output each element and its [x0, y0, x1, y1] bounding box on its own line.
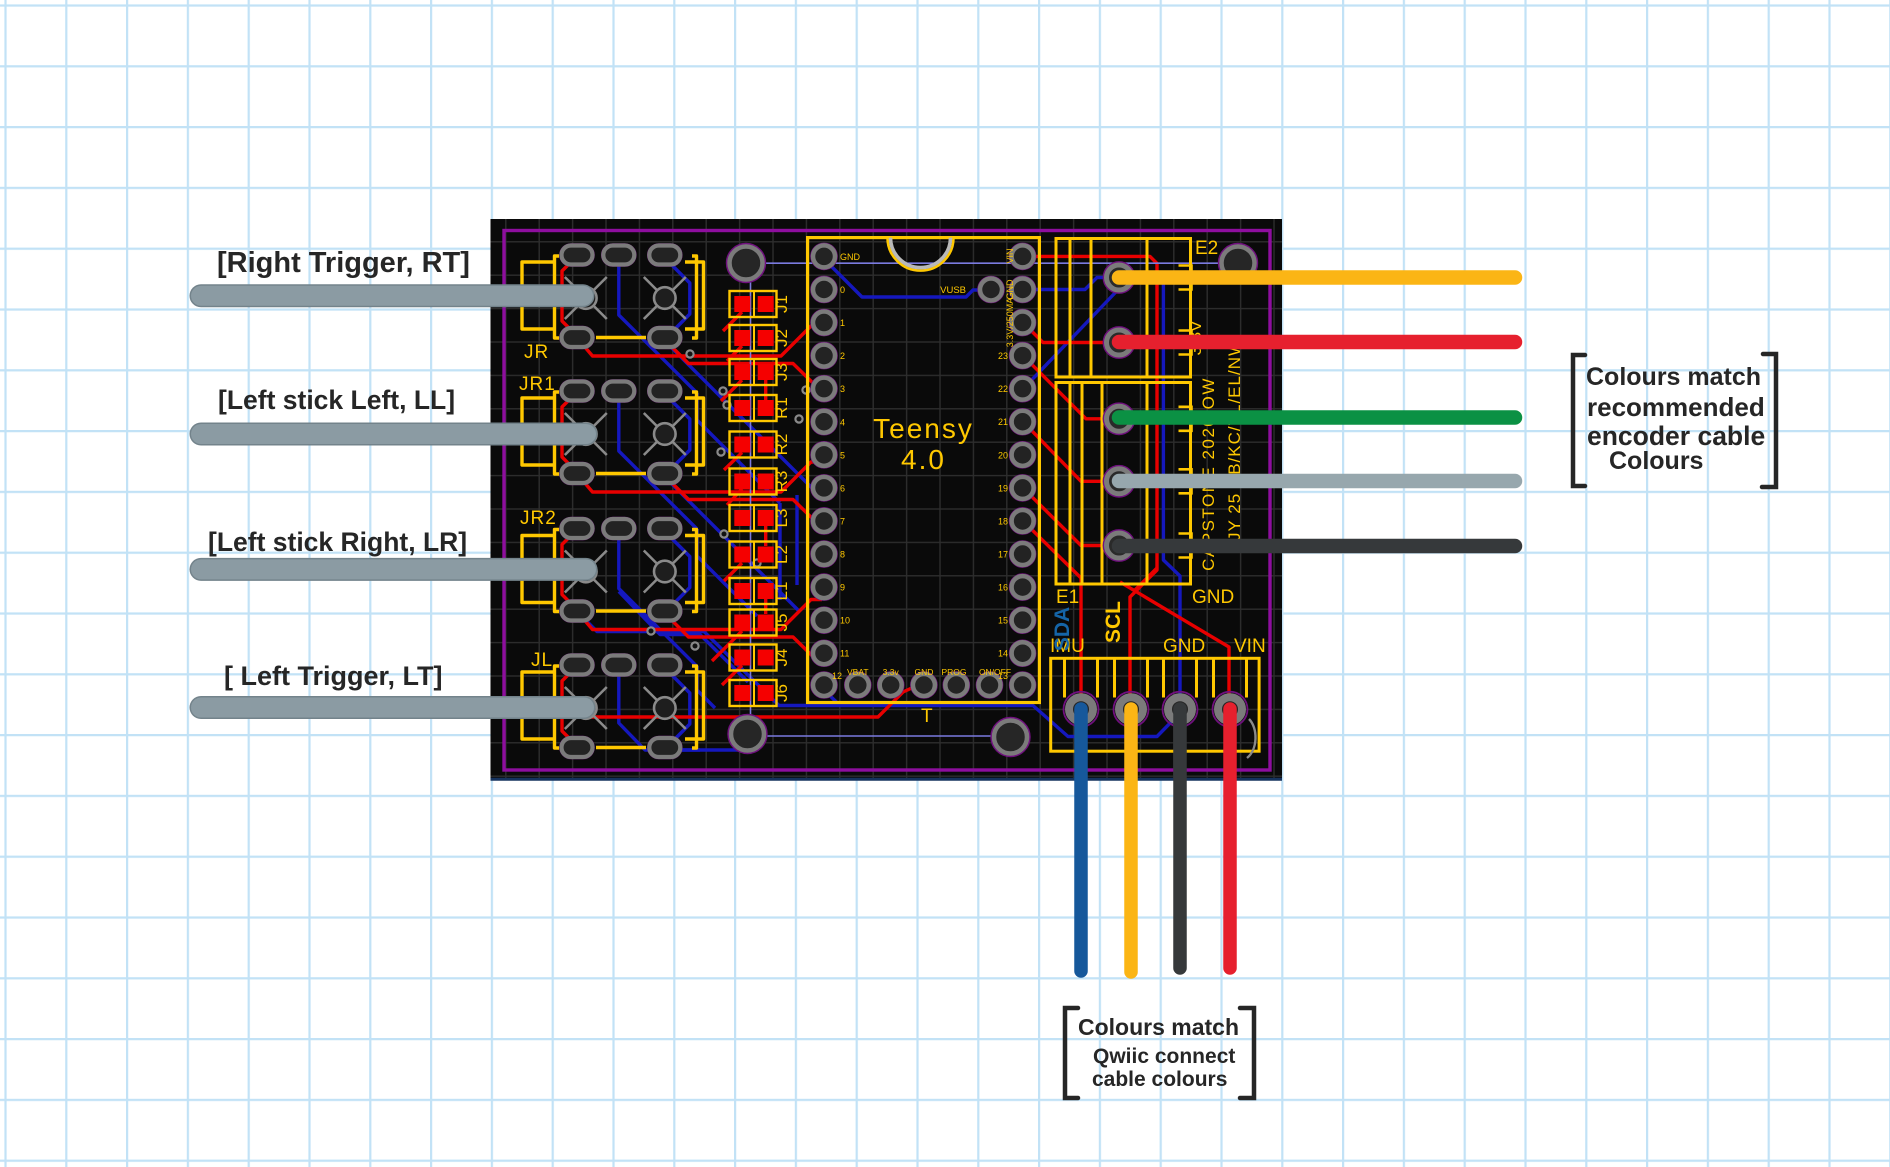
wire cable RT (grey)	[201, 284, 583, 307]
svg-text:4: 4	[840, 417, 845, 427]
wire Qwiic cable VIN red	[1223, 709, 1237, 968]
svg-text:4.0: 4.0	[901, 444, 946, 475]
wire Qwiic cable SCL yellow	[1124, 709, 1138, 972]
microcontroller U1 Teensy 4.0	[808, 238, 1040, 727]
svg-text:cable colours: cable colours	[1092, 1068, 1227, 1091]
svg-text:VBAT: VBAT	[847, 667, 869, 677]
svg-text:E2: E2	[1195, 238, 1218, 259]
svg-text:PROG: PROG	[941, 667, 966, 677]
svg-text:12: 12	[832, 671, 842, 681]
svg-text:Colours: Colours	[1609, 447, 1703, 475]
svg-text:11: 11	[840, 649, 849, 659]
svg-text:10: 10	[840, 616, 850, 626]
svg-text:16: 16	[998, 583, 1008, 593]
svg-text:[Left stick Right, LR]: [Left stick Right, LR]	[208, 527, 467, 557]
PCB board outline	[491, 219, 1283, 779]
component J3 (smd pads)	[730, 359, 792, 385]
component J4 (smd pads)	[730, 645, 792, 671]
svg-text:17: 17	[998, 550, 1008, 560]
component J2 (smd pads)	[730, 325, 792, 351]
svg-text:R3: R3	[772, 471, 791, 493]
component L3 (smd pads)	[730, 505, 792, 531]
svg-text:J1: J1	[772, 295, 791, 313]
svg-text:1: 1	[840, 318, 845, 328]
wire cable LT (grey)	[201, 696, 584, 719]
rotary encoder JL	[522, 650, 704, 759]
wire encoder cable 3.3V yellow	[1119, 270, 1515, 285]
vias	[647, 350, 809, 649]
svg-text:VUSB: VUSB	[940, 285, 966, 296]
component R2 (smd pads)	[730, 432, 792, 458]
svg-text:JR: JR	[524, 342, 549, 363]
connector E1	[1056, 383, 1192, 609]
svg-text:6: 6	[840, 483, 845, 493]
wire: blue B.Cu traces	[577, 258, 1180, 750]
svg-text:GND: GND	[914, 667, 933, 677]
svg-text:E1: E1	[1056, 587, 1079, 608]
component R1 (smd pads)	[730, 395, 792, 421]
mounting hole H1 top-left	[727, 244, 766, 283]
svg-text:J3: J3	[772, 363, 791, 381]
svg-text:3.3V/250MA: 3.3V/250MA	[1005, 298, 1015, 348]
svg-text:L1: L1	[772, 582, 791, 601]
component J5 (smd pads)	[730, 610, 792, 636]
mounting hole H2 top-right	[1219, 244, 1258, 283]
component R3 (smd pads)	[730, 469, 792, 495]
svg-text:Qwiic connect: Qwiic connect	[1093, 1045, 1235, 1068]
svg-text:13: 13	[998, 671, 1008, 681]
svg-text:JR2: JR2	[520, 508, 557, 529]
connector J7 Qwiic (IMU header)	[1050, 601, 1266, 751]
svg-text:J5: J5	[772, 614, 791, 632]
svg-text:7: 7	[840, 516, 845, 526]
component J1 (smd pads)	[730, 291, 792, 317]
svg-text:0: 0	[840, 285, 845, 295]
svg-text:GND: GND	[1192, 587, 1234, 608]
svg-text:[ Left Trigger, LT]: [ Left Trigger, LT]	[224, 661, 443, 691]
svg-text:[Right Trigger, RT]: [Right Trigger, RT]	[217, 247, 470, 279]
svg-text:23: 23	[998, 351, 1008, 361]
component L2 (smd pads)	[730, 542, 792, 568]
board purple border (Edge.Cuts margin)	[504, 231, 1270, 771]
rotary encoder JR1	[519, 374, 704, 485]
svg-text:J6: J6	[772, 684, 791, 702]
wire encoder cable black	[1119, 539, 1515, 554]
wire Qwiic cable SDA blue	[1074, 709, 1088, 971]
svg-text:2: 2	[840, 351, 845, 361]
svg-text:L2: L2	[772, 545, 791, 564]
svg-text:JY 25 SB/KC/TL/EL/NW: JY 25 SB/KC/TL/EL/NW	[1225, 339, 1244, 541]
svg-text:Teensy: Teensy	[873, 413, 974, 444]
svg-text:9: 9	[840, 583, 845, 593]
rotary encoder JR2	[520, 508, 704, 622]
wire encoder cable grey	[1119, 474, 1515, 489]
wire cable LL (grey)	[201, 423, 586, 446]
wire cable LR (grey)	[201, 558, 586, 581]
stray grey arc near VIN pad	[1247, 719, 1256, 758]
wire encoder cable 3.3V red	[1119, 335, 1515, 350]
svg-text:SDA: SDA	[1051, 607, 1074, 651]
svg-text:J4: J4	[772, 649, 791, 667]
svg-text:[Left stick Left, LL]: [Left stick Left, LL]	[218, 385, 455, 415]
svg-text:21: 21	[998, 417, 1008, 427]
svg-text:15: 15	[998, 616, 1008, 626]
svg-text:GND: GND	[1005, 279, 1015, 300]
svg-text:3: 3	[840, 384, 845, 394]
wire encoder cable green	[1119, 410, 1515, 425]
svg-text:L3: L3	[772, 509, 791, 528]
svg-text:VIN: VIN	[1005, 248, 1015, 263]
annotation colours match Qwiic connect cable colours	[1065, 1008, 1254, 1098]
mounting hole H3 bottom-left	[728, 715, 767, 754]
svg-text:3.3v: 3.3v	[883, 667, 900, 677]
lavender airwires between mounting holes	[746, 263, 1236, 736]
svg-text:SCL: SCL	[1102, 601, 1125, 643]
svg-text:recommended: recommended	[1587, 392, 1765, 422]
svg-text:14: 14	[998, 649, 1008, 659]
svg-text:22: 22	[998, 384, 1008, 394]
svg-text:19: 19	[998, 483, 1008, 493]
svg-text:20: 20	[998, 450, 1008, 460]
svg-text:T: T	[921, 706, 933, 727]
svg-text:R2: R2	[772, 434, 791, 456]
svg-text:5: 5	[840, 450, 845, 460]
rotary encoder JR	[522, 244, 704, 363]
connector E2	[1056, 238, 1218, 377]
component J6 (smd pads)	[730, 680, 792, 706]
svg-text:VIN: VIN	[1234, 636, 1266, 657]
svg-text:R1: R1	[772, 397, 791, 419]
svg-text:8: 8	[840, 550, 845, 560]
mounting hole H4 bottom-right	[991, 718, 1030, 757]
annotation colours match recommended encoder cable colours	[1573, 354, 1776, 487]
svg-text:Colours match: Colours match	[1586, 363, 1761, 391]
wire: red F.Cu traces	[562, 256, 1229, 744]
wire Qwiic cable GND black	[1173, 709, 1187, 968]
svg-text:18: 18	[998, 516, 1008, 526]
svg-text:GND: GND	[1163, 636, 1205, 657]
svg-text:JR1: JR1	[519, 374, 556, 395]
svg-text:GND: GND	[840, 252, 861, 262]
component L1 (smd pads)	[730, 578, 792, 604]
svg-text:JL: JL	[531, 650, 553, 671]
svg-text:J2: J2	[772, 329, 791, 347]
svg-text:Colours match: Colours match	[1078, 1014, 1239, 1040]
